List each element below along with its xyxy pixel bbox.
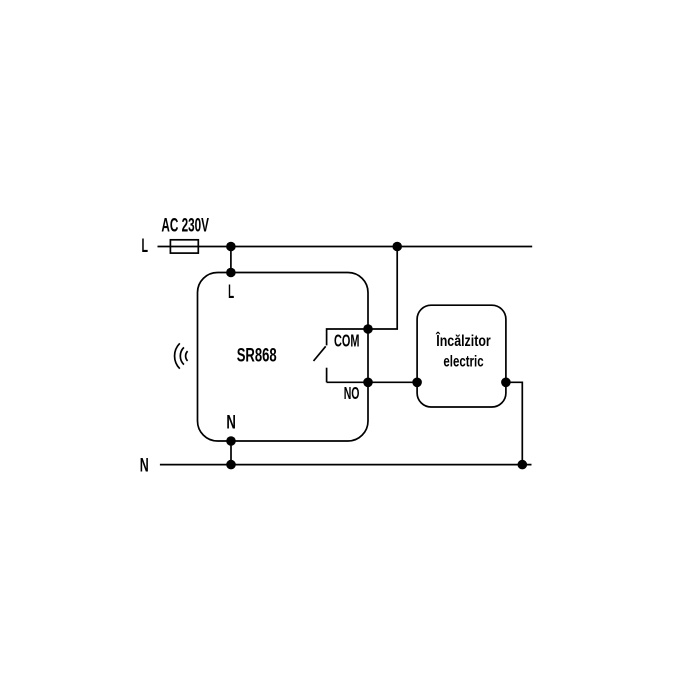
svg-text:AC 230V: AC 230V [161, 215, 209, 236]
svg-text:SR868: SR868 [237, 346, 277, 367]
svg-text:N: N [140, 456, 149, 477]
svg-text:N: N [226, 413, 236, 434]
svg-text:NO: NO [344, 383, 360, 403]
svg-text:L: L [142, 236, 149, 257]
svg-text:L: L [228, 282, 234, 303]
svg-text:Încălzitor: Încălzitor [435, 331, 490, 350]
svg-text:electric: electric [443, 353, 483, 370]
svg-text:COM: COM [334, 331, 360, 351]
